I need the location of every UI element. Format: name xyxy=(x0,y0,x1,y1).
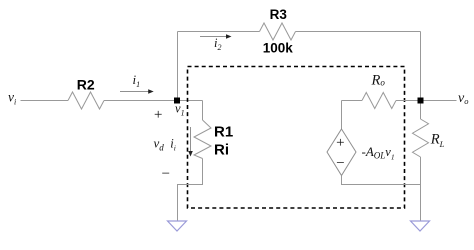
svg-text:+: + xyxy=(153,107,163,123)
svg-text:100k: 100k xyxy=(263,41,294,56)
wire R2 to node v1 xyxy=(104,100,203,102)
svg-text:R3: R3 xyxy=(270,7,288,22)
svg-text:−: − xyxy=(336,155,344,171)
resistor RL xyxy=(413,119,429,157)
current arrow i1 xyxy=(120,89,154,94)
wire vertical node v1 to top loop xyxy=(177,32,179,101)
wire right vertical to output node xyxy=(420,32,422,101)
dashed op-amp model box xyxy=(188,67,405,209)
ground right xyxy=(411,221,430,231)
wire diamond bottom xyxy=(342,176,421,185)
resistor R3 xyxy=(260,23,296,40)
ground left xyxy=(168,221,187,231)
wire node v1 to R1 top xyxy=(202,101,204,121)
resistor R1/Ri xyxy=(194,120,211,159)
wire R3 to right vertical xyxy=(296,31,421,33)
wire Ro corner to diamond top xyxy=(341,101,343,130)
svg-text:+: + xyxy=(336,135,344,151)
output node junction xyxy=(418,98,424,104)
svg-text:Ri: Ri xyxy=(214,142,229,159)
dependent source -AOLv1 xyxy=(327,129,356,176)
wire R1 bottom xyxy=(178,159,203,222)
wire RL bottom to ground xyxy=(420,157,422,221)
resistor R2 xyxy=(68,92,104,109)
wire input left xyxy=(21,100,69,102)
svg-text:R1: R1 xyxy=(214,124,233,141)
wire output node to vo xyxy=(424,100,457,102)
wire Ro left xyxy=(342,100,363,102)
svg-text:R2: R2 xyxy=(77,77,95,93)
wire top left to R3 xyxy=(178,31,260,33)
current arrow i2 xyxy=(200,34,232,39)
current arrow ii xyxy=(188,127,193,157)
svg-text:−: − xyxy=(161,166,171,182)
wire output node to RL xyxy=(420,104,422,120)
node v1 junction xyxy=(174,98,180,104)
resistor Ro xyxy=(362,93,396,109)
wire Ro to output node xyxy=(396,100,421,102)
